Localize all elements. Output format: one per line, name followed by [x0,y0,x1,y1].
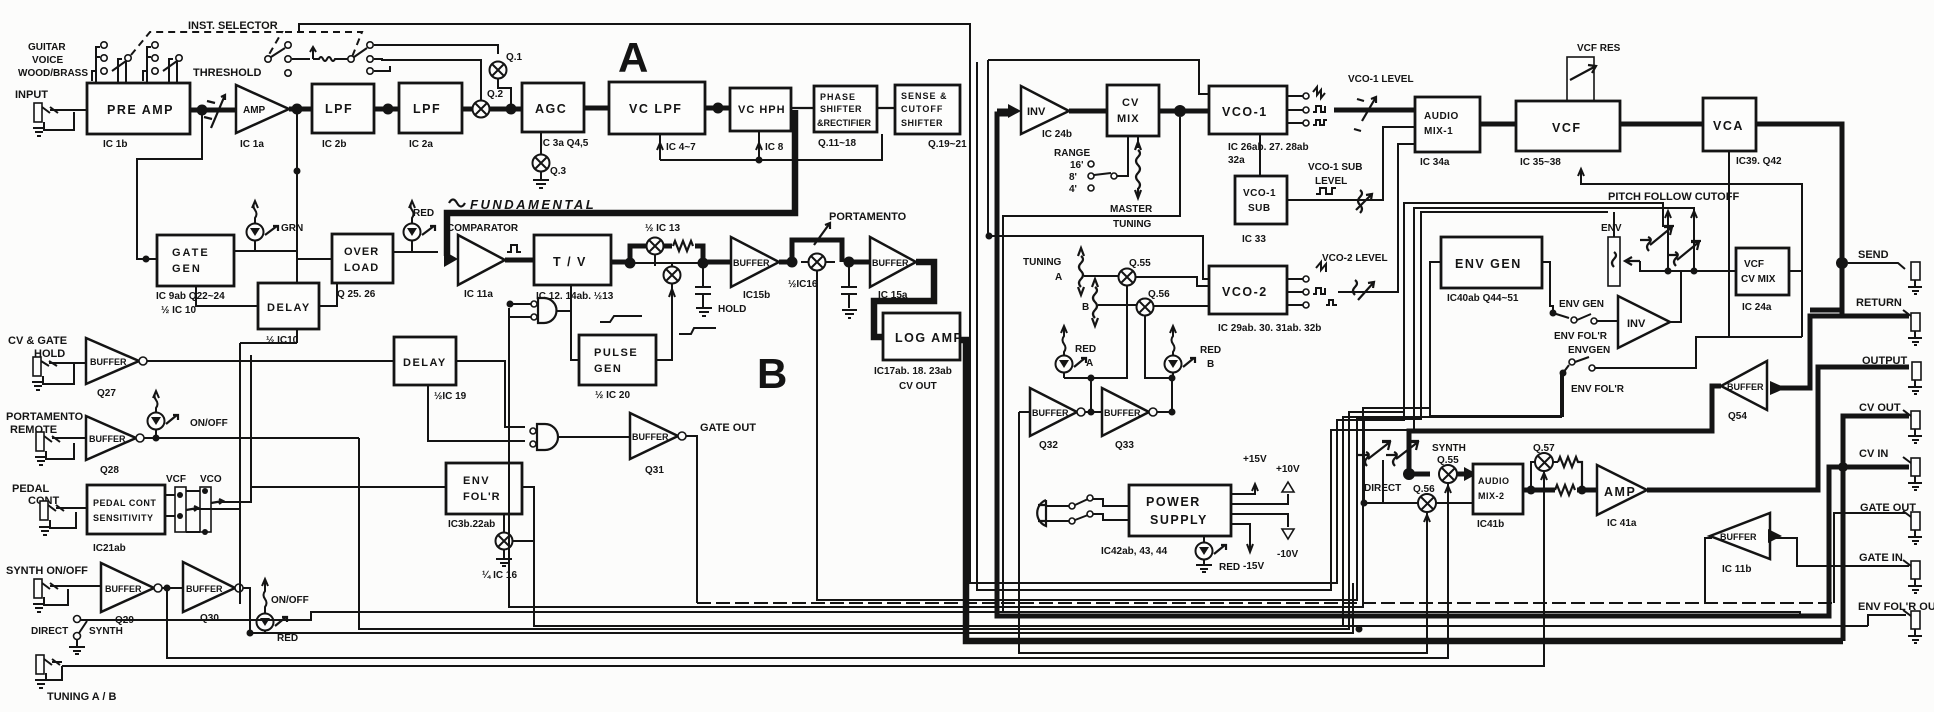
svg-text:BUFFER: BUFFER [1727,382,1764,392]
block PRE AMP (IC1b) [87,83,190,150]
thick audiomix1 to vcf [1480,122,1516,127]
svg-text:IC 35~38: IC 35~38 [1520,157,1561,168]
LED ON/OFF RED q30 [257,579,309,644]
block LPF (IC2b) [312,84,374,150]
label PORTAMENTO REMOTE [6,411,84,436]
svg-text:IC 34a: IC 34a [1420,157,1450,168]
svg-text:IC 11a: IC 11a [464,289,493,300]
svg-text:½ IC 10: ½ IC 10 [161,305,196,316]
LED RED A [1056,326,1097,378]
svg-text:IC 4~7: IC 4~7 [666,142,696,153]
wire Q27 out to delay2 [147,360,394,362]
block VC LPF (IC4~7) [609,82,705,153]
svg-text:INST. SELECTOR: INST. SELECTOR [188,20,278,32]
svg-text:Q.11~18: Q.11~18 [818,138,857,149]
wire gategen bottom to delay [196,286,258,306]
svg-text:CUTOFF: CUTOFF [901,104,943,114]
slider ENV [1608,212,1640,286]
wire q30 out [243,588,250,633]
svg-text:½ IC10: ½ IC10 [266,335,299,346]
LED RED B [1165,326,1222,378]
block AGC (IC3a) [522,83,589,149]
svg-text:½IC16: ½IC16 [788,279,818,290]
nand gate 2 [530,424,630,450]
buffer Q33 [1102,388,1157,451]
selector switches right [341,42,373,74]
wire vchph to phase shifter [791,107,814,109]
LED GRN [247,201,304,251]
svg-text:Q33: Q33 [1115,440,1134,451]
svg-text:Q28: Q28 [100,465,119,476]
svg-text:RED: RED [277,633,298,644]
svg-text:PEDAL: PEDAL [12,483,50,495]
block SENSE CUTOFF SHIFTER [895,85,967,150]
svg-text:IC 33: IC 33 [1242,234,1266,245]
svg-text:16': 16' [1070,160,1084,171]
thick vcf to vca [1620,122,1703,127]
svg-text:CV OUT: CV OUT [1859,402,1901,414]
svg-text:PORTAMENTO: PORTAMENTO [6,411,84,423]
svg-text:A: A [1086,358,1093,369]
buffer Q54 pointing left [1721,361,1767,422]
wire envfolr input [251,355,446,502]
buffer IC11b pointing left [1710,513,1782,575]
svg-text:GEN: GEN [172,263,202,275]
wire gate out long [686,436,697,603]
block CV MIX [1107,85,1159,136]
svg-text:PRE AMP: PRE AMP [107,103,174,117]
svg-text:BUFFER: BUFFER [89,434,126,444]
svg-text:SUPPLY: SUPPLY [1150,513,1208,527]
svg-text:IC 2b: IC 2b [322,139,346,150]
wire cv out [1843,416,1909,641]
svg-text:ENV GEN: ENV GEN [1455,257,1522,271]
bus tuning line [62,475,1544,666]
svg-text:BUFFER: BUFFER [1032,408,1069,418]
svg-text:IC 1b: IC 1b [103,139,127,150]
inv triangle right IC24a [1618,296,1670,348]
block DELAY (half IC10) [258,283,319,346]
svg-text:ENV: ENV [1601,223,1622,234]
block PEDAL CONT SENSITIVITY [87,485,165,554]
wire vco2 to audiomix [1338,144,1415,292]
svg-text:IC40ab Q44~51: IC40ab Q44~51 [1447,293,1519,304]
svg-text:PEDAL CONT: PEDAL CONT [93,498,156,508]
LED RED overload [404,201,436,252]
svg-text:PITCH FOLLOW CUTOFF: PITCH FOLLOW CUTOFF [1608,191,1739,203]
thick comparator to TV [505,258,534,263]
svg-text:LEVEL: LEVEL [1315,176,1347,187]
wire pulsegen input [571,311,579,360]
pot THRESHOLD [204,95,225,128]
block VCA [1703,98,1782,167]
svg-text:ON/OFF: ON/OFF [271,595,309,606]
inst selector switch group 2 [143,42,182,83]
svg-text:BUFFER: BUFFER [1104,408,1141,418]
svg-text:VC LPF: VC LPF [629,102,682,116]
arrow into audiomix2 [1457,472,1467,477]
svg-text:PULSE: PULSE [594,347,638,359]
wire q29-q30 [162,587,183,589]
svg-text:SENSITIVITY: SENSITIVITY [93,513,154,523]
switch DIRECT/SYNTH [31,616,123,655]
mixer Q1 [490,52,523,79]
label GUITAR VOICE WOOD/BRASS [18,42,88,79]
block VCF [1516,101,1620,168]
labels DIRECT Q56 [1364,483,1435,495]
thick fundamental feedback line [447,110,795,256]
svg-text:FOL'R: FOL'R [463,491,501,503]
svg-text:DELAY: DELAY [267,302,311,314]
mixer Q56 left [1137,289,1171,316]
thick buffer out to log amp [874,262,934,337]
wire envgen trigger loop [1430,262,1563,416]
frame top line section A [299,24,1663,583]
switch ENV GEN select [1550,299,1619,324]
svg-text:MIX-2: MIX-2 [1478,491,1505,501]
svg-text:RED: RED [413,208,434,219]
mixer Q56 right [1418,494,1436,522]
svg-text:VC HPH: VC HPH [738,104,786,116]
label TUNING A [1023,257,1062,283]
wire phase to sense [877,107,895,109]
cap after IC16 [841,262,857,318]
bus pitch line [817,212,1608,600]
svg-text:GATE OUT: GATE OUT [700,422,756,434]
svg-text:FUNDAMENTAL: FUNDAMENTAL [470,197,596,212]
svg-text:IC 24b: IC 24b [1042,129,1072,140]
svg-text:IC17ab. 18. 23ab: IC17ab. 18. 23ab [874,366,952,377]
thick line AGC-VCLPF [584,106,609,111]
arrow into buffer Q54 [1770,381,1786,395]
label FUNDAMENTAL [449,197,596,212]
svg-text:CV MIX: CV MIX [1741,274,1776,285]
jack SEND [1908,262,1922,294]
wire tuning loop top [988,60,1209,279]
svg-text:ENVGEN: ENVGEN [1568,345,1610,356]
svg-text:VCF: VCF [1552,121,1582,135]
svg-text:ENV: ENV [463,475,490,487]
svg-text:LPF: LPF [325,102,353,116]
pulse glyph 2 [679,328,716,334]
pot PORTAMENTO [814,211,907,245]
LED power RED [1196,536,1241,573]
svg-text:RED: RED [1219,562,1240,573]
svg-text:PORTAMENTO: PORTAMENTO [829,211,907,223]
svg-text:Q31: Q31 [645,465,664,476]
wire vco1sub out [1287,127,1415,200]
wire env slider to cvmix line [1640,261,1736,271]
svg-text:BUFFER: BUFFER [105,584,142,594]
bus q32 input line [1019,412,1427,653]
wire inv out up [1670,271,1681,322]
buffer Q29 [101,563,162,626]
svg-text:ENV FOL'R: ENV FOL'R [1571,384,1625,395]
svg-text:LPF: LPF [413,102,441,116]
thick line amp-lpf [289,107,312,112]
svg-text:SHIFTER: SHIFTER [820,104,862,114]
thick line lpf2 to Q2 [462,107,473,112]
wire preamp tap to gate gen [137,115,202,259]
svg-text:IC 24a: IC 24a [1742,302,1772,313]
frame line 2 [977,62,1694,590]
jack GATE OUT [1903,511,1922,544]
svg-text:VOICE: VOICE [32,55,63,66]
svg-text:MIX-1: MIX-1 [1424,126,1453,137]
svg-text:SHIFTER: SHIFTER [901,118,943,128]
jack OUTPUT [1908,362,1922,394]
labels ENV FOLR ENVGEN [1554,331,1610,356]
svg-text:VCF: VCF [1744,259,1764,270]
svg-text:INV: INV [1027,106,1046,118]
junction bus [1356,626,1363,633]
wire vcfcvmix out up to vcf [1578,169,1802,337]
svg-text:BUFFER: BUFFER [186,584,223,594]
svg-text:Q.1: Q.1 [506,52,523,63]
svg-text:GRN: GRN [281,223,303,234]
wire TV line to buffer [630,262,731,264]
svg-text:GATE: GATE [172,247,210,259]
svg-text:SYNTH: SYNTH [1432,443,1466,454]
wire direct line [1364,502,1473,504]
svg-text:AUDIO: AUDIO [1424,111,1459,122]
label MASTER TUNING [1110,204,1153,230]
svg-text:CV: CV [1122,97,1139,109]
svg-text:BUFFER: BUFFER [632,432,669,442]
thick vca to send [1756,124,1842,316]
pot MASTER TUNING [1135,136,1141,198]
wire q55 down to buffers [1064,286,1127,412]
dashed selector lines [131,32,362,58]
bus q30 line [250,583,1353,633]
thick line lpf-lpf [374,107,399,112]
svg-text:VCF: VCF [166,474,186,485]
wire env folr out [1868,615,1906,626]
svg-text:VCO-1 SUB: VCO-1 SUB [1308,162,1362,173]
pot VCF RES box [1567,57,1596,101]
label PEDAL CONT [12,483,59,507]
svg-text:IC 2a: IC 2a [409,139,433,150]
control line under filters [657,131,882,164]
wire selector to Q2 [374,59,481,101]
thick line VCLPF-VCHPH [705,106,730,111]
svg-text:Q 25. 26: Q 25. 26 [337,289,376,300]
wire direct vertical [1364,420,1383,503]
vco2 output terminals [1287,262,1337,308]
svg-text:VCF RES: VCF RES [1577,43,1621,54]
jack CV OUT [1903,410,1922,443]
svg-text:B: B [757,350,787,397]
svg-text:Q27: Q27 [97,388,116,399]
switch ENV FOLR select [1560,337,1803,377]
svg-text:INV: INV [1627,318,1646,330]
svg-text:CV OUT: CV OUT [899,381,937,392]
svg-text:T / V: T / V [553,255,587,269]
wire amp tap to 240 [240,343,297,604]
svg-text:GEN: GEN [594,363,622,375]
svg-text:-15V: -15V [1243,561,1264,572]
svg-text:IC 1a: IC 1a [240,139,264,150]
wire IC16 line [801,261,835,263]
svg-text:PHASE: PHASE [820,92,856,102]
wire delay2 out down to nand2 [456,361,525,427]
buffer Q27 [86,338,147,399]
svg-text:IC 11b: IC 11b [1722,564,1751,575]
jack TUNING [35,655,62,688]
svg-text:Q32: Q32 [1039,440,1058,451]
svg-text:BUFFER: BUFFER [90,357,127,367]
svg-text:OVER: OVER [344,246,379,258]
inst selector switch group 1 [92,42,131,83]
mixer Q57 [1535,453,1553,480]
junction preamp out [197,105,208,116]
svg-text:+15V: +15V [1243,454,1267,465]
label RANGE [1054,136,1128,195]
svg-text:VCO: VCO [200,474,222,485]
svg-text:Q.3: Q.3 [550,166,567,177]
jack PEDAL [39,501,87,535]
block T/V [534,235,614,302]
wire vco1 bottom to sub [1259,134,1261,176]
wire selector to Q1 [374,45,498,54]
svg-text:ON/OFF: ON/OFF [190,418,228,429]
buffer IC15a [870,237,916,301]
junction SEND [1836,257,1848,269]
pot SYNTH [1386,441,1419,466]
svg-text:VCA: VCA [1713,119,1744,133]
mixer below (half IC13 b) [655,255,681,360]
junction amp out [292,104,303,115]
svg-text:8': 8' [1069,172,1077,183]
pot vco1 level [1354,97,1376,131]
jack INPUT [33,103,87,136]
svg-text:HOLD: HOLD [718,304,746,315]
svg-text:SYNTH: SYNTH [89,626,123,637]
svg-text:¼ IC 16: ¼ IC 16 [482,570,517,581]
thick line Q2-AGC [490,107,522,112]
block DELAY (half IC19) [394,337,467,402]
jack CV GATE HOLD [32,357,86,390]
wire gate in to buffer [1773,538,1909,566]
jack SYNTH [33,579,101,612]
pot pitch follow 2 [1667,211,1701,271]
svg-text:SENSE &: SENSE & [901,91,948,101]
junction lpf out [383,104,394,115]
svg-text:TUNING A / B: TUNING A / B [47,691,117,703]
svg-text:RED: RED [1200,345,1221,356]
svg-text:AMP: AMP [243,105,266,116]
svg-text:BUFFER: BUFFER [872,258,909,268]
svg-text:Q.55: Q.55 [1129,258,1151,269]
svg-text:SUB: SUB [1248,203,1271,214]
svg-text:AUDIO: AUDIO [1478,476,1510,486]
svg-text:IC 9ab Q22~24: IC 9ab Q22~24 [156,291,225,302]
svg-text:A: A [618,34,648,81]
mixer Q2 [473,89,504,118]
svg-text:Q.56: Q.56 [1148,289,1170,300]
portamento bypass thick [779,260,870,265]
thick q54 out to synth mixer [1409,386,1721,474]
svg-text:DIRECT: DIRECT [31,626,68,637]
resistor after IC13 [673,241,693,251]
svg-text:GUITAR: GUITAR [28,42,66,53]
svg-text:Q.56: Q.56 [1413,484,1435,495]
buffer Q32 [1030,388,1085,451]
bus q55 line [167,483,1448,658]
block PULSE GEN [579,335,656,401]
svg-text:MIX: MIX [1117,113,1140,125]
svg-text:RETURN: RETURN [1856,297,1902,309]
svg-text:VCO-2: VCO-2 [1222,285,1268,299]
svg-text:VCO-1 LEVEL: VCO-1 LEVEL [1348,74,1414,85]
thick bus LOG AMP CV line [960,340,1843,641]
svg-text:B: B [1082,302,1089,313]
wire buffer11b out [1705,538,1712,604]
thick vco1 to audiomix1 with pot [1334,108,1415,113]
wire delay out [319,283,337,306]
svg-text:Q30: Q30 [200,613,219,624]
svg-text:TUNING: TUNING [1023,257,1062,268]
svg-text:IC 29ab. 30. 31ab. 32b: IC 29ab. 30. 31ab. 32b [1218,323,1321,334]
inv triangle IC24b [1021,86,1072,140]
mixer quarter IC16 [482,514,534,581]
junction cv lines [1838,462,1848,472]
wire send to jack [1848,263,1905,269]
pot vco1 sub level [1356,190,1372,213]
block ENV GEN [1441,237,1542,304]
jack RETURN [1903,310,1922,345]
thick arrow into inv [997,109,1011,114]
svg-text:POWER: POWER [1146,495,1201,509]
block VCO-1 [1209,86,1309,166]
label CV & GATE HOLD [8,335,67,360]
svg-text:DELAY: DELAY [403,357,447,369]
jack ENV FOLR OUT [1903,610,1922,643]
wire q57 path [1531,462,1558,490]
block LPF (IC2a) [399,83,462,150]
svg-text:ENV FOL'R OUT: ENV FOL'R OUT [1858,601,1934,613]
power plug [1037,500,1069,526]
svg-text:A: A [1055,272,1062,283]
svg-text:MASTER: MASTER [1110,204,1153,215]
amp triangle IC1a [236,85,289,150]
wire vca ctrl down [1696,151,1729,337]
wire tuning frame vertical [1002,236,1004,611]
svg-text:ENV GEN: ENV GEN [1559,299,1604,310]
block AUDIO MIX-1 [1415,97,1480,168]
wire input to preamp [58,109,87,111]
svg-text:IC42ab, 43, 44: IC42ab, 43, 44 [1101,546,1168,557]
wire master tuning loop [1003,117,1180,236]
svg-text:AGC: AGC [535,102,567,116]
pot DIRECT [1358,441,1391,466]
svg-text:BUFFER: BUFFER [1720,532,1757,542]
thick inv to cvmix [1069,109,1107,114]
wire amp tap down [296,109,298,343]
jack PORTAMENTO REMOTE [35,432,86,465]
wire envfolr out right [522,487,534,604]
mixer Q55 left [1119,258,1152,286]
svg-text:IC 8: IC 8 [765,142,784,153]
labels VCF VCO [166,474,222,485]
vco1 output terminals [1287,87,1327,126]
nand gate 1 [507,285,572,360]
svg-text:REMOTE: REMOTE [10,424,57,436]
svg-text:Q.19~21: Q.19~21 [928,139,967,150]
block VC HPH (IC8) [730,88,791,153]
svg-text:RED: RED [1075,344,1096,355]
buffer Q28 [86,416,144,476]
